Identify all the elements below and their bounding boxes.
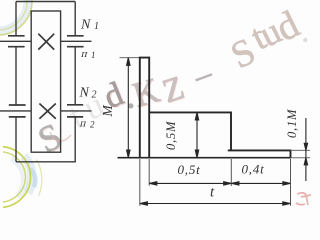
pink scribble inside lower box — [50, 132, 71, 141]
watermark text Stud.KZ - Stud (letters placed individually) — [32, 2, 314, 162]
dimension 0.1M — [304, 118, 307, 181]
baseline axis — [118, 157, 292, 159]
label N1 — [79, 18, 100, 130]
axis line upper right — [61, 40, 92, 42]
shaft I (left vertical) — [15, 2, 17, 162]
svg-text:0,1M: 0,1M — [285, 109, 299, 138]
bearing B3 on shaft I (plates row 2 left) — [9, 104, 26, 106]
torque spike — [140, 58, 149, 158]
svg-text:0,5t: 0,5t — [178, 162, 201, 177]
svg-text:1: 1 — [94, 21, 99, 32]
dimension 0.4t — [231, 182, 290, 185]
axis line upper left — [0, 40, 31, 42]
watermark arcs top-left — [0, 0, 32, 35]
extension lines below axis — [140, 159, 291, 206]
axis line lower left — [0, 110, 31, 112]
watermark logo bottom-left — [3, 147, 42, 208]
dimension 0.5M — [195, 113, 198, 158]
svg-text:0,5M: 0,5M — [164, 121, 178, 150]
bearing B1 on shaft I (plates row 1 left) — [8, 35, 25, 37]
bottom connector wire — [16, 161, 76, 163]
top connector wire — [16, 1, 75, 3]
axis line lower right — [61, 110, 92, 112]
svg-text:2: 2 — [92, 90, 97, 101]
svg-text:N: N — [79, 86, 90, 101]
step 0.5M — [149, 112, 231, 150]
step 0.1M — [228, 150, 291, 157]
pulley cross X2 (lower drive mark) — [39, 104, 55, 119]
dimension t — [140, 202, 290, 205]
extension of 0.1M step top — [291, 149, 311, 151]
belt loop rectangle — [31, 11, 60, 152]
pulley cross X1 (upper drive mark) — [38, 34, 54, 50]
extension line for M level — [120, 57, 141, 59]
dimension 0.5t — [149, 182, 231, 185]
pink mark bottom-right — [296, 193, 311, 205]
svg-text:N: N — [80, 18, 91, 33]
svg-text:2: 2 — [90, 120, 95, 130]
svg-text:M: M — [100, 105, 115, 118]
bearing B4 on shaft II (plates row 2 right) — [67, 104, 83, 106]
bearing B2 on shaft II (plates row 1 right) — [67, 35, 84, 37]
shaft II (right vertical) — [74, 2, 76, 162]
dimension M — [127, 58, 130, 158]
svg-text:0,4t: 0,4t — [242, 162, 265, 177]
svg-text:1: 1 — [91, 50, 96, 60]
